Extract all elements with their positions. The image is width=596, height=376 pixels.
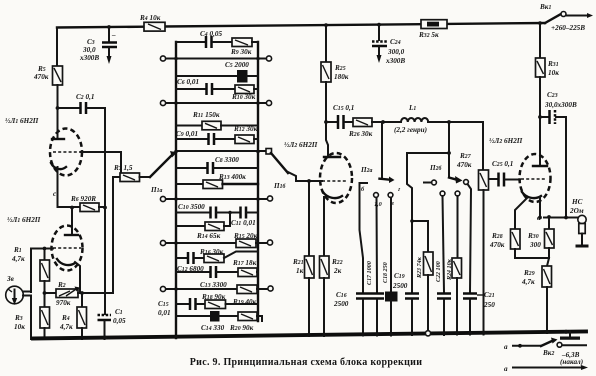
svg-text:(накал): (накал) (560, 358, 583, 366)
resistor R5 470k (33, 65, 63, 85)
svg-text:П1б: П1б (273, 182, 286, 190)
svg-text:а: а (504, 343, 508, 351)
svg-text:30,0: 30,0 (82, 46, 96, 54)
microphone Zv input (6, 275, 31, 339)
contact wire to C21 (464, 180, 471, 292)
svg-text:½Л2 6Н2П: ½Л2 6Н2П (284, 141, 318, 149)
svg-text:R1: R1 (13, 246, 22, 254)
svg-text:С19: С19 (394, 272, 405, 280)
svg-text:R11 150к: R11 150к (192, 111, 220, 119)
svg-text:С17 1000: С17 1000 (366, 261, 373, 285)
svg-text:R22: R22 (331, 258, 343, 266)
svg-text:4,7к: 4,7к (59, 323, 73, 331)
filament wire a2 (504, 365, 588, 373)
wire grid2 (296, 180, 322, 182)
svg-text:+260–225В: +260–225В (551, 24, 585, 32)
svg-text:10к: 10к (548, 69, 559, 77)
svg-text:С21: С21 (484, 291, 495, 299)
svg-text:П1а: П1а (150, 186, 162, 194)
svg-text:L1: L1 (408, 104, 416, 112)
svg-text:С18 250: С18 250 (382, 262, 389, 283)
resistor R3 10k (14, 291, 50, 339)
capacitor C22 100 (435, 261, 451, 335)
branch B8: capacitor C10 + capacitor C11 (176, 203, 258, 227)
svg-text:П2б: П2б (429, 164, 442, 172)
row 4 contacts (160, 196, 272, 202)
svg-text:С6 0,01: С6 0,01 (177, 78, 199, 86)
svg-text:R12 30к: R12 30к (233, 125, 258, 133)
svg-text:R28: R28 (491, 232, 503, 240)
capacitor C18 250 (382, 262, 398, 335)
svg-text:Вк1: Вк1 (539, 3, 551, 11)
wire ladder right bus (257, 42, 259, 321)
svg-text:1к: 1к (296, 267, 304, 275)
svg-text:250: 250 (483, 301, 495, 309)
wire left drop to R5 (56, 28, 58, 67)
wire cathode1b down (75, 262, 80, 293)
wire feedback vertical C2 to C1 (104, 108, 106, 314)
svg-text:0,05: 0,05 (113, 317, 126, 325)
wire divider row to R7 riser (82, 177, 113, 293)
svg-text:С10 3500: С10 3500 (178, 203, 205, 211)
svg-text:R30: R30 (527, 232, 539, 240)
svg-text:R25: R25 (334, 64, 346, 72)
bus junction dots (103, 330, 568, 340)
svg-text:10к: 10к (14, 323, 25, 331)
svg-text:R29: R29 (523, 269, 535, 277)
capacitor C15 0.1 + resistor R26 30k (326, 104, 401, 138)
svg-text:R5: R5 (37, 65, 46, 73)
resistor R21 1k (292, 181, 314, 336)
svg-text:С13 3300: С13 3300 (200, 281, 227, 289)
capacitor C2 (58, 93, 106, 114)
wire cathode1a down (57, 167, 59, 207)
contact wire to R24 (455, 191, 460, 258)
capacitor C24 electrolytic (372, 23, 405, 65)
contact g wire to C19 riser (398, 151, 451, 292)
svg-text:2Ом: 2Ом (569, 207, 584, 215)
svg-text:С1: С1 (115, 308, 123, 316)
svg-text:С15: С15 (158, 300, 169, 308)
svg-text:300,0: 300,0 (387, 48, 405, 56)
node plate/C2 (56, 106, 60, 110)
label C15 outside (158, 300, 171, 317)
tube V1b half L1 6N2P (7, 206, 83, 271)
svg-text:С15 0,1: С15 0,1 (333, 104, 354, 112)
branch B7: resistor R13 (176, 173, 258, 189)
svg-text:С12 6800: С12 6800 (177, 265, 204, 273)
svg-text:2500: 2500 (392, 282, 408, 290)
svg-text:С11 0,01: С11 0,01 (231, 219, 256, 227)
capacitor C23 electrolytic (538, 91, 577, 217)
capacitor C1 0.05 (98, 308, 126, 339)
ground bus main (33, 332, 586, 339)
svg-text:R21: R21 (292, 258, 304, 266)
svg-text:С3: С3 (87, 38, 95, 46)
resistor R7 1.5 (113, 164, 140, 182)
resistor R25 180k (321, 23, 349, 122)
svg-text:180к: 180к (334, 73, 349, 81)
branch B3: capacitor C6 + resistor R10 (176, 78, 258, 101)
switch Vk1 (539, 3, 593, 32)
svg-text:470к: 470к (489, 241, 505, 249)
svg-text:R10 30к: R10 30к (231, 93, 256, 101)
switch P1a blade (140, 151, 178, 194)
svg-text:R9 30к: R9 30к (230, 48, 252, 56)
wire cathode3 down to R28 (515, 198, 527, 229)
branch B10: capacitor C + resistor R16 (176, 248, 258, 264)
branch B13: capacitor solid + resistor R20 (176, 311, 262, 332)
svg-text:С25 0,1: С25 0,1 (492, 160, 513, 168)
resistor R32 (418, 20, 447, 39)
branch B12: capacitor C14 + resistor R18 (176, 293, 258, 310)
svg-text:Зв: Зв (6, 275, 15, 283)
svg-text:–: – (111, 31, 116, 39)
svg-text:х300В: х300В (79, 54, 99, 62)
capacitor C3 electrolytic to ground arrow (79, 25, 117, 64)
svg-text:300: 300 (529, 241, 541, 249)
tube V1a half L1 6N2P (5, 117, 82, 176)
resistor R29 4.7k (521, 258, 552, 333)
branch B6: capacitor C8 (176, 156, 258, 174)
contact wire to C22 (440, 191, 445, 292)
svg-text:Вк2: Вк2 (542, 349, 554, 357)
svg-text:R4 10к: R4 10к (139, 14, 161, 22)
row 5 contacts with inline resistor R15 (160, 232, 272, 248)
svg-text:R6 920R: R6 920R (70, 195, 96, 203)
wire top supply rail (57, 23, 545, 28)
resistor R24 10k (446, 258, 462, 335)
node grid2 junction (307, 179, 311, 183)
capacitor C17 1000 (366, 261, 384, 335)
wire ladder left bus (175, 42, 177, 338)
svg-text:R23 74к: R23 74к (416, 256, 423, 279)
svg-text:½Л1 6Н2П: ½Л1 6Н2П (7, 216, 41, 224)
contact to C17 (374, 193, 382, 292)
svg-text:470к: 470к (456, 161, 472, 169)
svg-text:1,0: 1,0 (374, 201, 382, 208)
svg-text:4,7к: 4,7к (521, 278, 535, 286)
ground under jack (576, 234, 589, 248)
chassis ground right end (560, 332, 580, 340)
svg-text:(2,2 генри): (2,2 генри) (394, 126, 427, 134)
inductor L1 (381, 104, 483, 134)
capacitor C19 2500 (392, 272, 419, 335)
svg-text:½Л1 6Н2П: ½Л1 6Н2П (5, 117, 39, 125)
branch B11: capacitor C12 + resistor R17 (176, 259, 258, 278)
resistor R23 74k (410, 219, 433, 330)
svg-text:R26 30к: R26 30к (348, 130, 373, 138)
svg-text:С24: С24 (390, 38, 401, 46)
svg-text:R20 90к: R20 90к (229, 324, 254, 332)
svg-text:С5 2000: С5 2000 (225, 61, 249, 69)
resistor R30 300 (527, 215, 554, 258)
contact b wire to C16 (360, 183, 368, 292)
svg-text:2500: 2500 (333, 300, 349, 308)
svg-text:С8 3300: С8 3300 (215, 156, 239, 164)
branch B4: resistor R11 (176, 111, 258, 130)
svg-text:R27: R27 (459, 152, 472, 160)
switch P2a blade (360, 122, 395, 183)
branch B9: resistor R14 (176, 213, 230, 241)
resistor R4b 4.7k (59, 291, 87, 339)
svg-text:С14 330: С14 330 (201, 324, 225, 332)
resistor R1 (11, 246, 50, 293)
svg-text:2к: 2к (333, 267, 342, 275)
svg-text:30,0х300В: 30,0х300В (544, 101, 577, 109)
row 2 contacts (160, 100, 271, 105)
svg-text:R2: R2 (57, 281, 66, 289)
resistor R4 (139, 14, 165, 31)
switch Vk2 filament (504, 338, 586, 367)
switch P1b blade (271, 153, 296, 190)
svg-text:С4 0,05: С4 0,05 (200, 30, 222, 38)
svg-text:R3: R3 (14, 314, 23, 322)
svg-text:R4: R4 (61, 314, 70, 322)
capacitor C21 250 (463, 291, 495, 335)
svg-text:4,7к: 4,7к (11, 255, 25, 263)
wire R5 to plate node (57, 85, 59, 139)
svg-text:П2а: П2а (360, 166, 372, 174)
svg-text:С23: С23 (547, 91, 558, 99)
resistor R22 2k (320, 197, 343, 336)
branch B1: capacitor C4 + resistor R9 (176, 30, 258, 56)
potentiometer R2 970k (45, 281, 83, 307)
branch B5: capacitor C9 + resistor R12 (176, 125, 258, 145)
svg-text:R32 5к: R32 5к (418, 31, 439, 39)
tube V2a half L2 6N2P (284, 122, 352, 203)
svg-text:R31: R31 (547, 60, 559, 68)
row 6 contacts with inline resistor R19 (160, 281, 273, 306)
switch P2b blade (424, 122, 463, 185)
headphone jack NS (569, 198, 586, 234)
svg-text:R24 10к: R24 10к (446, 258, 453, 281)
svg-text:а: а (504, 365, 508, 373)
svg-text:R7 1,5: R7 1,5 (113, 164, 133, 172)
resistor R31 10k (536, 21, 560, 166)
svg-text:R14 65к: R14 65к (196, 232, 221, 240)
capacitor C25 0.1 (489, 160, 520, 187)
svg-text:НС: НС (571, 198, 583, 206)
wire grid1a out right (81, 152, 121, 174)
capacitor C16 2500 (333, 291, 370, 336)
svg-text:470к: 470к (33, 73, 49, 81)
svg-text:С9 0,01: С9 0,01 (176, 130, 198, 138)
row 3 contact to P1b (174, 149, 271, 155)
node plate2 (324, 120, 328, 124)
svg-text:R17 18к: R17 18к (232, 259, 257, 267)
svg-text:х300В: х300В (385, 57, 405, 65)
svg-text:С16: С16 (336, 291, 347, 299)
connector circle on bus (425, 331, 430, 336)
tube V3 half L2 6N2P (489, 137, 551, 202)
wire grid1b to input (31, 249, 53, 293)
branch B2: capacitor C5 solid (176, 70, 258, 83)
contact v wire to C18 (388, 193, 394, 291)
svg-text:970к: 970к (56, 299, 71, 307)
svg-text:С2 0,1: С2 0,1 (76, 93, 94, 101)
wire output line to jack (537, 214, 578, 222)
resistor R28 470k (489, 229, 549, 258)
row 1 contacts (160, 56, 271, 61)
svg-text:0,01: 0,01 (158, 309, 171, 317)
resistor R27 470k on riser (456, 122, 489, 335)
svg-text:Рис. 9. Принципиальная схема б: Рис. 9. Принципиальная схема блока корре… (190, 357, 423, 368)
svg-text:½Л2 6Н2П: ½Л2 6Н2П (489, 137, 523, 145)
resistor R6 920 (58, 195, 107, 212)
svg-text:С22 100: С22 100 (435, 261, 442, 282)
